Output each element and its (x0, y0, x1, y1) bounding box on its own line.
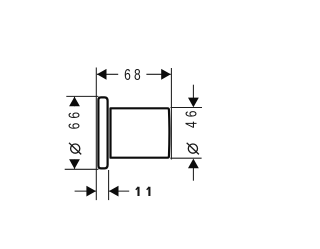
arrowhead 11 pointing right (86, 186, 96, 197)
cylinder body (111, 108, 170, 157)
svg-text:66: 66 (65, 108, 83, 130)
dimension line Ø46 bottom segment (192, 168, 194, 181)
svg-text:68: 68 (124, 65, 144, 83)
arrowhead 68 left (97, 69, 107, 80)
extension line top of plate (for Ø66) (66, 95, 98, 97)
diameter symbol of label Ø46 (188, 144, 197, 153)
extension line bottom of plate (for Ø66) (65, 168, 99, 170)
dimension line Ø66 bottom segment (under arrow) (74, 159, 76, 169)
dimension line 68 left segment (97, 73, 118, 75)
dimension line 11 left tail (75, 190, 96, 192)
extension line left of plate (for 68 and 11) (95, 68, 97, 201)
extension line right of cylinder (for 68) (170, 68, 172, 160)
diameter symbol of label Ø66 (71, 144, 80, 153)
dimension line 68 right segment (146, 73, 170, 75)
arrowhead Ø46 up (outside, at bottom) (188, 159, 199, 169)
label 11 (136, 187, 150, 196)
extension line bottom of cylinder (for Ø46) (170, 157, 201, 159)
arrowhead 68 right (161, 69, 171, 80)
arrowhead Ø66 down (69, 159, 80, 169)
escutcheon plate (side view) (98, 97, 107, 168)
arrowhead 11 pointing left (109, 186, 119, 197)
svg-text:46: 46 (182, 106, 200, 128)
extension line right of plate thickness (for 11) (108, 170, 110, 200)
dimension line Ø46 top segment (192, 85, 194, 99)
arrowhead Ø66 up (69, 97, 80, 107)
arrowhead Ø46 down (outside, at top) (188, 98, 199, 108)
extension line top of cylinder (for Ø46) (171, 107, 203, 109)
dimension line Ø66 top segment (under arrow) (74, 97, 76, 107)
dimension line 11 right tail (109, 190, 129, 192)
